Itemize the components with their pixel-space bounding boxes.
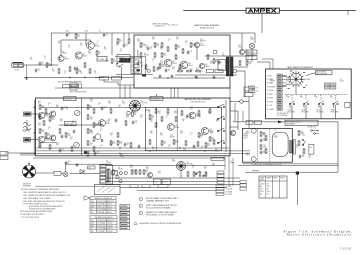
resistor R34 <box>298 130 300 136</box>
ground blob on bus <box>84 151 87 154</box>
remote box 1 <box>244 87 253 91</box>
wire pin stub 4 <box>282 86 287 88</box>
svg-text:47K: 47K <box>77 36 80 38</box>
svg-text:220: 220 <box>119 143 122 145</box>
transistor Q40 <box>148 173 153 178</box>
record cal box 2 <box>65 122 77 126</box>
power transformer T3 winding 1 <box>289 141 290 153</box>
svg-text:6.8K: 6.8K <box>174 113 177 115</box>
wire vertical x86 <box>85 33 87 45</box>
preamp aux box 2 <box>70 87 77 90</box>
svg-text:R71: R71 <box>198 115 201 117</box>
svg-text:C52: C52 <box>68 161 71 163</box>
svg-text:R17: R17 <box>177 46 180 48</box>
wire right bundle 2 <box>228 156 230 186</box>
svg-text:.02: .02 <box>126 45 128 47</box>
switch S16 <box>203 173 207 177</box>
svg-text:R14: R14 <box>161 65 164 67</box>
wire box out 1 <box>230 110 238 112</box>
svg-text:B1: B1 <box>142 101 144 103</box>
legend box 3 <box>120 212 130 215</box>
wire y88 drop <box>229 88 231 98</box>
svg-text:47K: 47K <box>180 133 183 135</box>
norm play cells 1 <box>324 83 336 86</box>
svg-text:INTLK: INTLK <box>340 81 344 83</box>
resistor R69 <box>181 110 183 116</box>
connector strip TB1 <box>120 58 130 62</box>
svg-text:R62: R62 <box>158 111 161 113</box>
wire inner divider 1 <box>155 108 157 151</box>
resistor R64 <box>161 140 163 146</box>
wire step drop b <box>117 82 119 85</box>
svg-text:R41: R41 <box>41 106 44 108</box>
capacitor C6 <box>103 33 106 37</box>
wire S5 drop <box>305 105 307 119</box>
svg-text:Q35: Q35 <box>175 125 178 127</box>
meter M1 <box>74 110 80 116</box>
svg-text:.25: .25 <box>148 113 150 115</box>
wire rotary to safety switch <box>306 73 315 76</box>
svg-text:R9: R9 <box>77 35 79 37</box>
resistor R72 <box>198 132 200 138</box>
transport connector pin 5 <box>277 89 282 92</box>
svg-text:971: 971 <box>172 69 175 71</box>
svg-text:910: 910 <box>104 49 107 51</box>
wire bus y181 <box>105 180 240 182</box>
wire terminal 1 out <box>312 130 319 132</box>
wire S4 drop <box>291 105 293 119</box>
svg-text:600: 600 <box>178 70 181 72</box>
svg-text:K7: K7 <box>340 79 342 81</box>
svg-text:TO ERASE: TO ERASE <box>267 85 276 88</box>
svg-text:RECORD SW: RECORD SW <box>316 73 327 75</box>
line matching box <box>218 60 226 71</box>
lamp DS7 <box>124 171 127 174</box>
svg-text:.5: .5 <box>104 108 105 110</box>
svg-text:T1: T1 <box>105 59 107 61</box>
svg-text:18K: 18K <box>150 121 153 123</box>
resistor R30 <box>260 131 262 137</box>
line out box 2 <box>215 70 223 73</box>
connector J1 inner contacts <box>14 65 23 67</box>
svg-text:.1: .1 <box>305 87 306 89</box>
svg-text:C44: C44 <box>135 121 138 123</box>
wire into transport top <box>269 62 271 69</box>
node bus c <box>179 147 180 148</box>
svg-text:C4: C4 <box>68 45 70 47</box>
AFM equalization table <box>90 216 117 233</box>
output panel outline <box>94 185 120 195</box>
svg-text:2N404: 2N404 <box>205 66 210 68</box>
wire S6 drop <box>320 105 322 119</box>
wire bus below psu 2 <box>238 165 338 167</box>
svg-text:3.3K: 3.3K <box>38 125 41 127</box>
resistor R41 <box>39 104 41 110</box>
circled number 1 <box>139 197 142 200</box>
resistor R41a <box>43 120 45 126</box>
svg-text:R15: R15 <box>160 61 163 63</box>
svg-text:R9: R9 <box>116 43 118 45</box>
wire pin stub 1 <box>282 75 287 77</box>
edge connector P5 pin 1 <box>217 171 224 174</box>
svg-text:C14: C14 <box>140 62 143 64</box>
speaker label box <box>54 171 61 175</box>
resistor R21 <box>207 54 209 60</box>
svg-text:R24: R24 <box>246 55 249 57</box>
svg-text:R14: R14 <box>160 47 163 49</box>
svg-text:R21: R21 <box>190 69 193 71</box>
svg-text:R4: R4 <box>98 52 100 54</box>
fuse table outline <box>259 176 287 198</box>
speed control label box <box>285 120 318 125</box>
wire preamp bottom bus y77 <box>24 77 133 79</box>
svg-text:390: 390 <box>56 107 59 109</box>
transport connector pin 4 <box>277 85 282 88</box>
svg-text:.5: .5 <box>98 105 99 107</box>
wire inner bus y74 <box>116 74 153 76</box>
svg-text:C16: C16 <box>152 59 155 61</box>
svg-text:8: 8 <box>189 116 190 118</box>
wire lamp to riser <box>237 70 245 72</box>
svg-text:Q33: Q33 <box>56 143 59 145</box>
svg-text:C47: C47 <box>190 133 193 135</box>
bus label box 1 <box>63 85 70 88</box>
resistor R36 <box>303 148 305 154</box>
resistor R19 <box>182 48 184 54</box>
svg-text:ALSO-BELOW SET BE SHOWN IN SHI: ALSO-BELOW SET BE SHOWN IN SHIFT <box>21 210 53 213</box>
resistor R86 <box>199 171 201 177</box>
AMPEX logo text <box>249 9 276 12</box>
resistor R8 <box>89 68 91 74</box>
lamp DS2 <box>240 100 244 104</box>
svg-text:R3: R3 <box>52 69 54 71</box>
svg-text:S7: S7 <box>330 95 332 97</box>
svg-text:4020-03: 4020-03 <box>107 209 112 211</box>
wire bus y187 <box>120 187 227 189</box>
polarized capacitor C15 <box>137 69 141 71</box>
preamp aux box 1 <box>70 83 77 86</box>
resistor R2 <box>69 66 71 72</box>
svg-text:620: 620 <box>146 169 149 171</box>
norm play divider 2 <box>329 86 331 89</box>
svg-text:10K: 10K <box>113 61 116 63</box>
svg-text:R61: R61 <box>151 116 154 118</box>
transistor Q10 <box>194 42 199 47</box>
capacitor C17 <box>165 69 168 73</box>
legend box 2 text <box>121 209 128 210</box>
svg-text:C45: C45 <box>48 103 51 105</box>
wire speaker to label <box>36 172 55 174</box>
transport connector pin 10 fill <box>278 108 282 109</box>
transport connector pin 9 <box>277 104 282 107</box>
meter M2 needle <box>75 143 79 147</box>
wire lamp to panel <box>70 173 100 175</box>
svg-text:971: 971 <box>158 173 161 175</box>
interconnect label box 2 <box>112 77 122 81</box>
svg-text:R53: R53 <box>110 143 113 145</box>
output transformer box <box>117 55 130 62</box>
resistor R70 <box>185 140 187 146</box>
svg-text:5.6K: 5.6K <box>90 133 93 135</box>
svg-text:R22: R22 <box>215 60 218 62</box>
edge connector P6 pin 2 <box>216 188 224 190</box>
svg-text:TO MTR: TO MTR <box>267 98 274 100</box>
svg-text:R86: R86 <box>204 167 207 169</box>
svg-text:R12: R12 <box>152 37 155 39</box>
svg-text:S10: S10 <box>216 119 219 121</box>
svg-text:1K: 1K <box>185 43 187 45</box>
svg-text:R15: R15 <box>163 54 166 56</box>
svg-text:2N404: 2N404 <box>200 45 205 47</box>
svg-text:100K: 100K <box>38 147 42 149</box>
svg-text:R90: R90 <box>286 79 289 81</box>
svg-text:M2: M2 <box>72 121 74 123</box>
svg-text:2N404: 2N404 <box>188 65 193 67</box>
svg-text:1K: 1K <box>94 73 96 75</box>
svg-text:C10: C10 <box>145 45 148 47</box>
wire preamp to assembly <box>130 57 134 59</box>
resistor R54 <box>93 146 95 152</box>
svg-text:2N404: 2N404 <box>64 58 69 60</box>
svg-text:3. ALL WIRES ARE TYPE 22 AWG.: 3. ALL WIRES ARE TYPE 22 AWG. <box>23 197 52 200</box>
capacitor C5 <box>66 33 69 37</box>
legend box 2 <box>120 208 130 211</box>
ground sig 1 <box>159 75 162 78</box>
wire logo stub <box>261 13 263 33</box>
transport connector pin 5 fill <box>278 90 282 91</box>
svg-text:C9: C9 <box>126 44 128 46</box>
output transformer T4 winding 1 <box>106 169 108 182</box>
node input <box>51 64 52 65</box>
wire step c <box>118 84 135 86</box>
resistor R73 <box>209 108 211 114</box>
capacitor C62 <box>138 145 141 149</box>
transport connector pin 7 fill <box>278 97 282 98</box>
resistor R74 <box>209 136 211 142</box>
svg-text:Q12: Q12 <box>238 45 241 47</box>
node x34 b <box>34 132 35 133</box>
legend box 4 <box>120 216 130 219</box>
svg-text:.02: .02 <box>145 47 147 49</box>
svg-text:4020-04: 4020-04 <box>108 231 113 233</box>
svg-text:Q35: Q35 <box>170 135 173 137</box>
capacitor C9 <box>123 44 126 48</box>
svg-text:K1: K1 <box>144 53 146 55</box>
resistor R76 <box>205 142 207 148</box>
svg-text:10K: 10K <box>158 113 161 115</box>
wire bus y155 left <box>20 154 36 156</box>
svg-text:MED: MED <box>91 225 94 227</box>
resistor R65 <box>161 116 163 122</box>
svg-text:4: 4 <box>62 150 63 152</box>
svg-text:R73: R73 <box>208 111 211 113</box>
resistor R60 <box>149 139 151 145</box>
svg-text:C1: C1 <box>44 56 46 58</box>
top rule end drop <box>347 11 349 16</box>
svg-text:CR2: CR2 <box>246 153 249 155</box>
resistor R29a <box>179 64 181 70</box>
resistor R25 <box>177 70 183 72</box>
wire stage1 <box>45 113 50 115</box>
svg-text:B2: B2 <box>172 159 174 161</box>
svg-text:820: 820 <box>47 135 50 137</box>
connector J1 MIC INPUT <box>12 63 24 67</box>
resistor R12 <box>154 42 156 48</box>
svg-text:T3: T3 <box>274 130 276 132</box>
svg-text:1K: 1K <box>200 137 202 139</box>
wire line out bus y75 <box>175 74 237 76</box>
svg-text:C64: C64 <box>201 146 204 148</box>
svg-text:C11: C11 <box>190 51 193 53</box>
svg-text:RECORD: RECORD <box>288 112 296 114</box>
wire drop x125 <box>124 85 126 98</box>
transport connector pin 7 <box>277 96 282 99</box>
top rule right segment <box>279 10 356 12</box>
interconnect label box 1 <box>100 77 109 81</box>
resistor R88 <box>113 169 115 175</box>
resistor R54a <box>59 128 61 134</box>
svg-text:100: 100 <box>308 157 311 159</box>
svg-text:R17: R17 <box>176 37 179 39</box>
wire right bundle 3 <box>232 158 234 186</box>
wire line1 into box <box>31 113 38 115</box>
svg-text:2000: 2000 <box>263 140 267 142</box>
svg-text:Q11: Q11 <box>205 64 208 66</box>
svg-text:C41: C41 <box>100 129 103 131</box>
wire drop x121 <box>121 67 123 79</box>
switch S11 <box>217 116 225 120</box>
wire to Q3 base <box>90 40 92 42</box>
svg-text:Q13: Q13 <box>172 67 175 69</box>
resistor R92 <box>117 140 119 146</box>
wire drop x130 <box>129 85 131 98</box>
wire speaker loop top <box>66 163 112 165</box>
resistor R59 <box>125 120 127 126</box>
switch S10 <box>217 104 225 108</box>
ground line out <box>213 76 216 79</box>
svg-text:S3: S3 <box>270 79 272 81</box>
svg-text:R92: R92 <box>119 142 122 144</box>
resistor R9 <box>75 33 77 39</box>
svg-text:EM1008: EM1008 <box>200 41 206 43</box>
connector J1 label strip <box>12 62 22 63</box>
svg-text:75: 75 <box>145 172 147 174</box>
svg-text:TO +28: TO +28 <box>267 105 273 107</box>
speaker phone panel box <box>100 165 113 184</box>
svg-text:2000: 2000 <box>263 147 267 149</box>
svg-text:R22: R22 <box>210 61 213 63</box>
transport connector pin 3 fill <box>278 82 282 83</box>
svg-text:R1: R1 <box>48 64 50 66</box>
svg-text:2N404: 2N404 <box>175 127 180 129</box>
svg-text:NE2: NE2 <box>130 167 133 169</box>
resistor R66 <box>167 108 169 114</box>
edge connector E1 <box>0 152 8 156</box>
capacitor C11 <box>187 51 190 55</box>
bus label box 2 <box>71 85 78 88</box>
svg-text:R69: R69 <box>182 119 185 121</box>
bus label box below record <box>211 157 224 160</box>
resistor R55 <box>110 108 112 114</box>
terminal AC 2 <box>314 133 316 135</box>
transport connector pin 8 fill <box>278 101 282 102</box>
svg-text:33K: 33K <box>156 45 159 47</box>
relay K6 box <box>309 144 314 154</box>
psu part box 1 <box>246 121 253 125</box>
svg-text:R94: R94 <box>183 148 186 150</box>
resistor R80 <box>131 169 133 175</box>
svg-text:R63: R63 <box>160 133 163 135</box>
resistor R78 <box>87 151 89 157</box>
wire remote drop to psu <box>248 97 250 128</box>
svg-text:R8: R8 <box>94 71 96 73</box>
AMC equalization table <box>90 197 116 214</box>
svg-text:2.2K: 2.2K <box>160 63 163 65</box>
capacitor C40 <box>101 107 104 111</box>
wire connector to rotary 2 <box>282 76 290 78</box>
svg-text:56: 56 <box>70 139 72 141</box>
wire interstage <box>61 39 91 41</box>
wire bus y186 left <box>35 185 120 187</box>
arrow speed control <box>278 121 283 124</box>
svg-text:R46: R46 <box>47 134 50 136</box>
legend box 6 text <box>121 224 128 225</box>
svg-text:.02: .02 <box>150 48 152 50</box>
svg-text:1.5K: 1.5K <box>248 63 251 65</box>
resistor R75 <box>197 141 199 147</box>
svg-text:RECT: RECT <box>246 133 250 135</box>
rotary terminal speck <box>290 71 292 72</box>
resistor R1 <box>46 62 48 68</box>
svg-text:1K: 1K <box>108 121 110 123</box>
node bus a <box>119 147 120 148</box>
svg-text:R55: R55 <box>108 101 111 103</box>
wire into fuse table area <box>252 170 259 172</box>
svg-text:DESCRIPTION: DESCRIPTION <box>97 201 106 203</box>
svg-text:R83: R83 <box>145 171 148 173</box>
svg-text:R61: R61 <box>150 131 153 133</box>
bus component box 3 <box>158 185 168 188</box>
circled number 3 <box>139 211 142 214</box>
svg-text:R56: R56 <box>110 133 113 135</box>
wire drop x171 <box>170 88 172 98</box>
record inner sub-box <box>145 108 221 151</box>
svg-text:EQUALIZER: EQUALIZER <box>151 98 161 101</box>
svg-text:8: 8 <box>115 172 116 174</box>
edge connector P4 pin 4 <box>100 176 106 179</box>
svg-text:TO REC: TO REC <box>226 186 233 188</box>
wire inner box right <box>145 57 147 77</box>
svg-text:RECT: RECT <box>246 155 250 157</box>
wire drop x174 <box>174 88 176 98</box>
transport connector pin 9 fill <box>278 105 282 106</box>
norm play divider 1 <box>329 83 331 86</box>
power transformer T3 secondary <box>294 140 296 155</box>
svg-text:Q34: Q34 <box>98 123 101 125</box>
transport connector pin 8 <box>277 100 282 103</box>
transistor Q33 <box>50 135 56 141</box>
resistor R87 <box>205 171 207 177</box>
svg-text:INPUT R: INPUT R <box>23 131 31 133</box>
svg-text:C48: C48 <box>100 145 103 147</box>
svg-text:C8: C8 <box>120 49 122 51</box>
resistor R4 <box>96 50 98 56</box>
transistor Q35 <box>167 124 174 131</box>
wire input shield drop <box>26 65 28 77</box>
lamp DS4 <box>127 111 131 115</box>
svg-text:R76: R76 <box>207 144 210 146</box>
node bus b <box>149 150 150 151</box>
